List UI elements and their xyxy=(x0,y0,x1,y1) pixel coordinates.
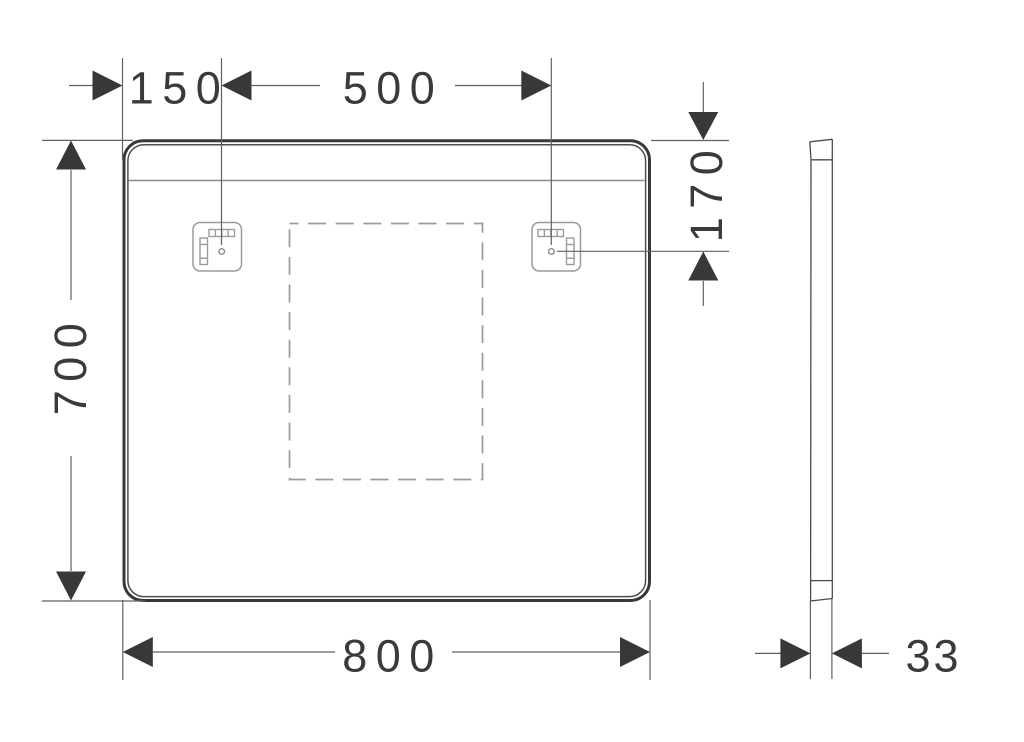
dim 800 left line xyxy=(152,651,335,653)
dim 170 top tail xyxy=(702,82,704,113)
right bracket top slot xyxy=(538,230,564,237)
svg-text:33: 33 xyxy=(905,631,961,682)
extension line mirror left edge (top) xyxy=(122,58,124,160)
right mounting bracket body xyxy=(532,223,581,272)
extension line mirror bottom (left) xyxy=(42,600,145,602)
extension line right bracket center xyxy=(550,58,552,245)
light strip line xyxy=(129,180,645,182)
extension line left bracket center xyxy=(221,58,223,245)
dim 700 lower line xyxy=(70,456,72,571)
dim 33 left arrow xyxy=(780,638,810,668)
dim 170 bottom arrow xyxy=(688,252,718,281)
dim 700 upper line xyxy=(70,170,72,300)
dim 700 bottom arrow xyxy=(56,572,86,601)
svg-text:800: 800 xyxy=(342,631,443,682)
dim 170 top arrow xyxy=(688,112,718,140)
dim 800 right arrow xyxy=(620,637,650,667)
dim 500 left line xyxy=(251,85,320,87)
dim 170 top reference line xyxy=(651,140,729,142)
dim 33 right arrow xyxy=(832,638,862,668)
left mounting bracket body xyxy=(193,223,242,272)
left bracket side slot xyxy=(200,238,208,265)
dim 170 bottom reference line (leader from right bracket hole) xyxy=(557,250,729,252)
left bracket screw hole xyxy=(219,249,225,255)
side view left edge xyxy=(810,142,811,601)
extension line side view left (bottom) xyxy=(809,601,811,679)
extension line mirror top (left) xyxy=(42,139,133,141)
dim 800 left arrow xyxy=(123,637,153,667)
svg-text:150: 150 xyxy=(129,63,230,114)
right bracket side slot xyxy=(567,238,575,265)
svg-text:500: 500 xyxy=(343,63,444,114)
dim 500 left arrow xyxy=(222,71,252,101)
extension line side view right (bottom) xyxy=(831,599,833,679)
dim 150 left arrow xyxy=(93,71,123,101)
side view top divider xyxy=(811,159,832,161)
svg-text:700: 700 xyxy=(45,315,96,416)
mirror outer outline (front view) xyxy=(124,141,650,601)
right bracket screw hole xyxy=(549,249,555,255)
left bracket top slot xyxy=(209,230,235,237)
mirror inner outline (front view) xyxy=(128,145,646,597)
extension line mirror right edge (bottom) xyxy=(649,600,651,680)
dim 700 top arrow xyxy=(56,141,86,170)
side view bottom divider xyxy=(811,580,833,582)
side view top edge xyxy=(810,139,833,142)
dim 33 right tail xyxy=(861,652,889,654)
dashed cutout box xyxy=(290,224,483,480)
dim 500 right arrow xyxy=(521,71,551,101)
side view bottom edge xyxy=(811,599,833,602)
dim 170 bottom tail xyxy=(702,281,704,306)
dim 150 left tail xyxy=(69,85,94,87)
svg-text:170: 170 xyxy=(681,142,732,243)
dim 800 right line xyxy=(452,651,621,653)
dim 500 right line xyxy=(455,85,522,87)
dim 33 left tail xyxy=(755,652,782,654)
extension line mirror left edge (bottom) xyxy=(122,600,124,680)
side view right edge xyxy=(831,139,833,599)
